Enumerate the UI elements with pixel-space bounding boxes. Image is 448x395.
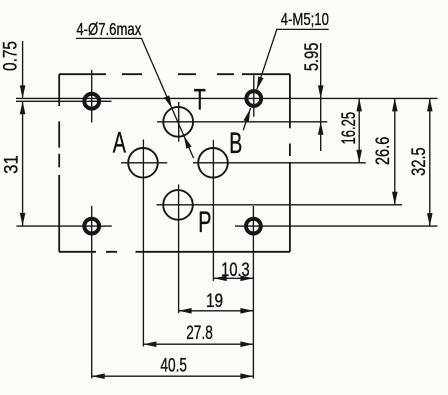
svg-text:27.8: 27.8 [186, 322, 213, 344]
svg-text:19: 19 [206, 289, 223, 311]
svg-text:10.3: 10.3 [221, 258, 249, 281]
svg-text:P: P [198, 206, 211, 239]
svg-text:4-Ø7.6max: 4-Ø7.6max [76, 20, 141, 39]
svg-text:40.5: 40.5 [160, 354, 187, 376]
svg-text:T: T [194, 83, 206, 116]
svg-text:4-M5;10: 4-M5;10 [281, 10, 329, 29]
svg-text:5.95: 5.95 [300, 43, 323, 71]
svg-text:31: 31 [0, 155, 21, 174]
svg-text:0.75: 0.75 [0, 41, 21, 71]
svg-text:A: A [113, 127, 126, 160]
svg-text:26.6: 26.6 [371, 137, 394, 165]
svg-text:32.5: 32.5 [407, 147, 430, 175]
svg-text:16.25: 16.25 [337, 112, 359, 145]
svg-text:B: B [229, 127, 242, 160]
